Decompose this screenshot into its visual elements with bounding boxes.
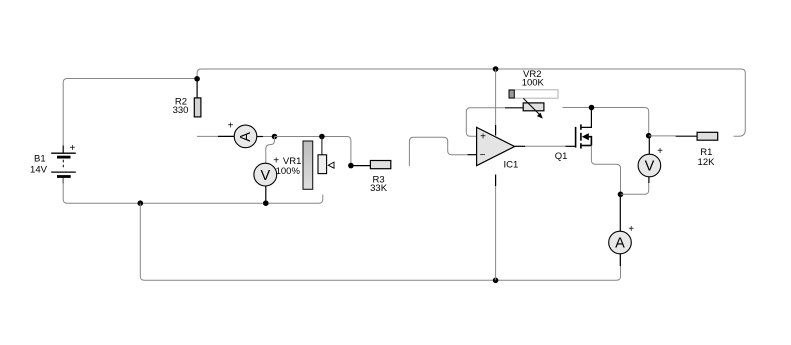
node: Q1 drain junction [589,105,595,111]
resistor R2 [194,98,201,117]
node: junction R2/top-rail [194,76,200,82]
potentiometer VR2 left pin [505,107,523,109]
voltmeter V1 [254,163,277,186]
potentiometer VR1 thumb pin wire [321,137,323,155]
svg-text:+: + [480,132,486,143]
ammeter A1 right pin [257,136,263,138]
potentiometer VR1 track [303,141,313,189]
svg-text:330: 330 [173,105,189,116]
node: VR1 top junction [319,134,325,140]
potentiometer VR1 wiper arrow [328,162,334,168]
svg-text:+: + [228,120,234,131]
resistor R1 left pin [676,135,698,137]
svg-text:12K: 12K [698,157,716,168]
voltmeter V2 bottom pin [648,177,650,183]
wire: stub to ammeter A1 [197,135,218,137]
op-amp V+ pin [495,125,497,136]
ammeter A1 [234,125,257,148]
wire: dangling stub to op-amp inverting input [409,137,467,166]
op-amp V- pin [495,175,497,187]
node: lower-left rail junction 2 (V1) [263,200,269,206]
svg-text:+: + [657,146,663,157]
wire: battery positive to top rail junction [63,79,197,153]
op-amp IC1 [477,127,515,165]
Q1 gate pin [566,145,576,147]
ammeter A2 bottom pin [619,254,621,266]
node: bottom rail / op-amp V- junction [493,278,499,284]
resistor R2 pin [196,79,198,98]
transistor Q1 [576,124,592,148]
wire: bottom rail [140,203,620,280]
svg-text:100K: 100K [522,77,545,88]
svg-text:33K: 33K [370,183,388,194]
svg-text:A: A [238,132,254,142]
svg-text:V: V [645,159,655,175]
svg-text:A: A [615,236,625,252]
op-amp V+ supply wire [495,69,497,125]
svg-text:B1: B1 [34,153,46,164]
potentiometer VR2 thumb [509,90,514,98]
potentiometer VR2 body [523,103,544,111]
Q1 body arrow [582,133,589,140]
svg-text:−: − [480,150,486,161]
wire: node to V2 bottom [621,182,649,194]
node: junction R3 [348,163,354,169]
ammeter A1 left pin [218,135,234,137]
op-amp output pin [515,145,526,147]
svg-text:V: V [260,168,270,184]
wire: node to VR1 wiper node and down to R3 node [275,137,351,166]
Q1 drain lead [581,108,592,128]
resistor R3 [370,161,390,169]
wire: op-amp non-inverting input loop to VR2 [466,108,505,137]
wire: Q1 drain rail [563,108,649,136]
svg-text:14V: 14V [30,164,48,175]
op-amp V- supply wire [495,186,497,280]
resistor R3 left pin [351,165,371,167]
node: drain/V2/R1 junction [646,133,652,139]
svg-text:+: + [273,156,279,167]
svg-text:+: + [69,143,75,154]
resistor R1 [697,132,718,140]
potentiometer VR1 thumb [318,155,327,174]
ammeter A2 top pin [619,194,621,231]
potentiometer VR2 track [509,90,558,98]
wire: op-amp output to Q1 gate [525,145,565,147]
voltmeter V2 [638,154,661,177]
wire: Q1 source down to A2 node [591,146,620,195]
op-amp inverting input pin [468,154,477,156]
ammeter A2 [609,231,632,254]
wire: battery negative lower-left rail to below VR1 [63,178,323,203]
node: source/A2 junction [618,192,624,198]
wire: junction to R1 [649,135,676,137]
wire: node down to voltmeter V1 [266,137,275,164]
voltmeter V1 bottom pin [265,186,267,203]
svg-text:+: + [628,224,634,235]
node: lower-left rail junction 1 [138,200,144,206]
svg-text:Q1: Q1 [555,151,568,162]
node: A1 output junction [272,134,278,140]
voltmeter V2 top pin [648,136,650,155]
battery B1 [51,146,76,184]
wire: top rail from junction to right side down to R1 [197,69,745,136]
svg-text:IC1: IC1 [504,160,519,171]
node: op-amp V+ junction on top rail [493,66,499,72]
wire: A1 to node [263,136,275,138]
potentiometer VR2 arrow [523,98,539,114]
svg-text:100%: 100% [276,166,301,177]
